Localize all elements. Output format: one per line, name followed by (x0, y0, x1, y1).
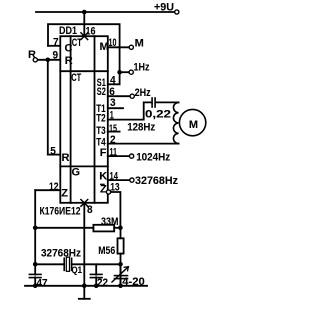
svg-text:3: 3 (110, 97, 116, 109)
svg-text:11: 11 (110, 147, 118, 159)
svg-text:9: 9 (53, 49, 59, 61)
svg-text:16: 16 (86, 25, 96, 37)
svg-text:R: R (28, 49, 36, 61)
svg-text:33M: 33M (101, 216, 119, 228)
svg-text:22: 22 (97, 277, 108, 289)
svg-text:47: 47 (37, 278, 48, 290)
svg-text:2: 2 (110, 134, 116, 146)
svg-text:T2: T2 (96, 113, 106, 125)
svg-text:32768Hz: 32768Hz (41, 248, 81, 260)
svg-text:6: 6 (109, 86, 115, 98)
svg-text:+9U: +9U (154, 1, 174, 13)
svg-text:M: M (100, 41, 109, 53)
svg-text:13: 13 (110, 181, 120, 193)
svg-text:R: R (65, 55, 73, 67)
svg-text:8: 8 (87, 204, 93, 216)
svg-text:CT: CT (72, 37, 82, 49)
svg-text:10: 10 (109, 37, 117, 49)
svg-text:M56: M56 (98, 245, 115, 257)
svg-text:2Hz: 2Hz (135, 87, 151, 99)
svg-text:Q1: Q1 (72, 265, 83, 276)
svg-text:Z: Z (61, 188, 68, 200)
svg-text:4: 4 (110, 74, 116, 86)
svg-text:128Hz: 128Hz (127, 122, 155, 134)
svg-text:G: G (72, 167, 81, 179)
svg-text:5: 5 (50, 145, 56, 157)
svg-text:F: F (100, 147, 107, 159)
svg-text:К176ИЕ12: К176ИЕ12 (40, 205, 81, 217)
svg-text:CT: CT (71, 72, 81, 84)
svg-text:0,22: 0,22 (145, 109, 171, 121)
svg-text:Z: Z (100, 183, 107, 195)
svg-text:R: R (62, 152, 70, 164)
svg-text:1024Hz: 1024Hz (136, 151, 170, 163)
svg-text:7: 7 (53, 37, 59, 49)
svg-text:M: M (135, 38, 144, 50)
svg-text:T3: T3 (96, 125, 106, 137)
svg-text:12: 12 (49, 181, 59, 193)
svg-text:1Hz: 1Hz (134, 61, 150, 73)
svg-text:1: 1 (110, 109, 114, 121)
svg-text:32768Hz: 32768Hz (135, 175, 178, 187)
svg-text:DD1: DD1 (59, 25, 77, 37)
svg-text:M: M (189, 119, 198, 131)
svg-text:4-20: 4-20 (122, 276, 145, 288)
svg-text:K: K (99, 171, 107, 183)
svg-text:S2: S2 (97, 86, 106, 98)
